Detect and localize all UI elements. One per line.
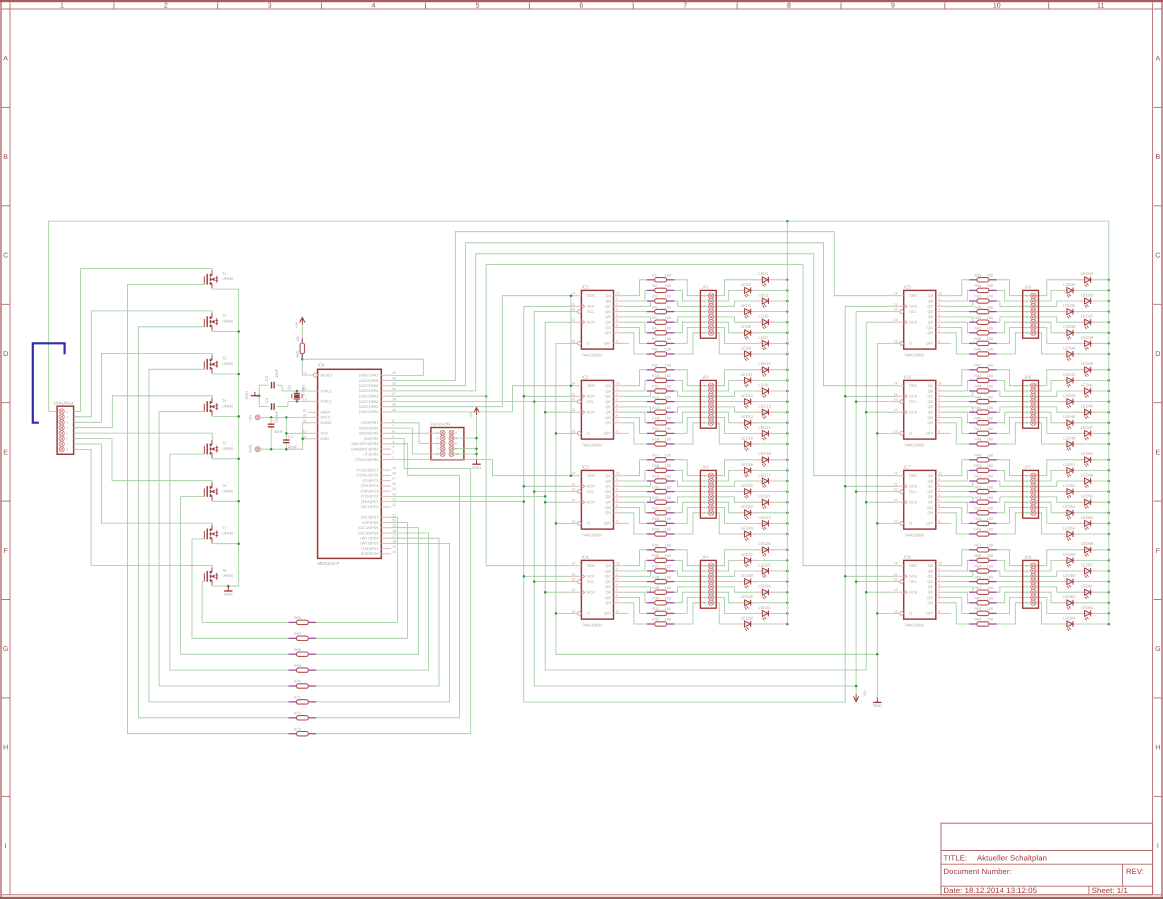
svg-text:5: 5 — [703, 585, 705, 589]
wire PB7 to ISP pin5 — [391, 423, 443, 444]
svg-text:6: 6 — [703, 591, 705, 595]
svg-text:QA: QA — [605, 564, 611, 568]
svg-text:(RXD)PD0: (RXD)PD0 — [361, 552, 379, 556]
svg-text:T1: T1 — [222, 272, 226, 276]
svg-text:100: 100 — [987, 544, 993, 548]
wire Q to R — [623, 301, 650, 306]
svg-text:R26: R26 — [652, 554, 659, 558]
wire R to JP — [674, 423, 711, 444]
wire Q to R — [946, 412, 969, 423]
svg-text:LED37: LED37 — [1081, 314, 1094, 319]
svg-text:31: 31 — [303, 419, 307, 423]
wire JP to LED — [1033, 592, 1109, 603]
wire PA3 to IC4 SER — [486, 396, 571, 566]
svg-text:2: 2 — [616, 482, 618, 486]
svg-text:(ADC5)PA5: (ADC5)PA5 — [359, 384, 379, 388]
svg-text:3: 3 — [436, 436, 438, 440]
wire RESET net to PA7 — [302, 359, 423, 375]
svg-text:(T1)PB1: (T1)PB1 — [364, 453, 378, 457]
svg-text:22: 22 — [392, 503, 396, 507]
wire R to JP — [997, 560, 1034, 571]
svg-text:T7: T7 — [222, 526, 226, 530]
wire JP to LED — [1033, 481, 1109, 486]
junction LED bus — [1108, 512, 1111, 515]
wire SV1 pin7 to T7 drain — [74, 444, 213, 525]
wire +5V top rail — [49, 221, 1109, 411]
svg-text:(ADC0)PA0: (ADC0)PA0 — [359, 410, 379, 414]
wire Q to R — [623, 401, 646, 403]
wire Q to R — [623, 322, 646, 333]
svg-text:LED3: LED3 — [759, 292, 770, 297]
svg-text:QH*: QH* — [926, 342, 934, 346]
junction LED bus — [1108, 289, 1111, 292]
wire SCK branch — [524, 575, 572, 577]
junction ISP gnd 1 — [475, 437, 478, 440]
svg-text:RCK: RCK — [909, 501, 917, 505]
wire JP to LED — [711, 301, 787, 306]
transistor T4 — [203, 404, 205, 412]
svg-text:100: 100 — [987, 284, 993, 288]
svg-text:R47: R47 — [974, 427, 981, 431]
svg-text:2: 2 — [1026, 299, 1028, 303]
junction LED bus — [1108, 501, 1111, 504]
svg-text:R1: R1 — [652, 274, 657, 278]
svg-text:74HC595N: 74HC595N — [904, 532, 924, 537]
svg-text:B: B — [1155, 154, 1160, 161]
svg-text:QC: QC — [605, 485, 611, 489]
svg-text:100: 100 — [987, 316, 993, 320]
svg-text:QH: QH — [927, 421, 933, 425]
svg-text:(ADC6)PA6: (ADC6)PA6 — [359, 379, 379, 383]
svg-text:LED34: LED34 — [1081, 271, 1094, 276]
svg-text:QD: QD — [927, 400, 933, 404]
wire SCL branch right — [856, 491, 894, 493]
wire T6 gate net — [181, 497, 289, 655]
resistor R61 — [969, 591, 977, 593]
svg-text:SCK: SCK — [909, 395, 917, 399]
svg-text:F: F — [3, 548, 7, 555]
svg-text:5: 5 — [703, 315, 705, 319]
svg-text:LED12: LED12 — [741, 393, 754, 398]
svg-text:39: 39 — [392, 403, 396, 407]
svg-text:14: 14 — [894, 562, 898, 566]
junction crystal XTAL2 — [296, 390, 299, 393]
resistor R55 — [969, 522, 977, 524]
svg-text:R51: R51 — [974, 475, 981, 479]
svg-text:SER: SER — [587, 474, 595, 478]
svg-text:29: 29 — [392, 466, 396, 470]
svg-text:IC6: IC6 — [904, 375, 911, 380]
svg-text:13: 13 — [894, 339, 898, 343]
wire JP to LED — [1033, 460, 1109, 476]
wire PC1 to SCK bus — [391, 501, 524, 503]
wire JP to LED — [711, 460, 787, 476]
svg-text:33: 33 — [392, 371, 396, 375]
wire Q to R — [946, 603, 969, 624]
svg-text:14: 14 — [572, 562, 576, 566]
diode LED29 — [756, 591, 762, 593]
wire JP to LED — [711, 481, 787, 486]
junction LED bus — [786, 459, 789, 462]
junction SCL right — [855, 580, 858, 583]
svg-text:R70: R70 — [294, 680, 301, 684]
wire R to JP — [997, 407, 1034, 412]
svg-text:T8: T8 — [222, 569, 226, 573]
svg-text:8: 8 — [1026, 421, 1028, 425]
wire RCK branch — [545, 501, 571, 503]
svg-text:QB: QB — [605, 389, 611, 393]
svg-text:10: 10 — [572, 488, 576, 492]
svg-text:8: 8 — [703, 421, 705, 425]
wire R to JP — [674, 328, 711, 344]
svg-text:(TOSC2)PC7: (TOSC2)PC7 — [356, 468, 379, 472]
svg-text:100: 100 — [665, 327, 671, 331]
transistor T6 — [203, 489, 205, 497]
wire +5V stub bottom — [855, 686, 857, 694]
svg-text:R9: R9 — [652, 364, 657, 368]
svg-text:7: 7 — [703, 326, 705, 330]
svg-text:11: 11 — [894, 572, 898, 576]
svg-text:36: 36 — [392, 387, 396, 391]
svg-text:QE: QE — [928, 315, 934, 319]
svg-text:G: G — [909, 612, 912, 616]
wire R to JP — [674, 412, 711, 423]
wire Q to R — [623, 598, 646, 614]
junction ISP gnd 3 — [475, 453, 478, 456]
diode LED27 — [738, 559, 744, 561]
svg-text:(SDA)PC1: (SDA)PC1 — [361, 500, 379, 504]
wire Q to R — [946, 311, 969, 313]
svg-text:100: 100 — [665, 337, 671, 341]
wire R to JP — [674, 311, 711, 313]
junction SCK — [523, 575, 526, 578]
svg-text:LED49: LED49 — [1081, 472, 1094, 477]
wire Q to R — [623, 571, 650, 576]
svg-text:R43: R43 — [974, 385, 981, 389]
svg-text:100: 100 — [665, 305, 671, 309]
svg-text:R66: R66 — [294, 616, 301, 620]
junction GND pin — [301, 438, 304, 441]
svg-text:R67: R67 — [294, 632, 301, 636]
wire SV1 pin1 to T1 drain — [74, 269, 213, 412]
svg-text:R62: R62 — [974, 597, 981, 601]
svg-text:LED45: LED45 — [1081, 404, 1094, 409]
svg-text:100: 100 — [665, 475, 671, 479]
resistor R9 — [647, 369, 655, 371]
wire R to JP — [997, 581, 1034, 583]
supply +5V symbol at AVCC — [255, 415, 260, 420]
svg-text:R49: R49 — [974, 454, 981, 458]
junction SCK — [523, 485, 526, 488]
junction LED bus — [1108, 390, 1111, 393]
resistor R14 — [647, 422, 655, 424]
svg-text:9: 9 — [938, 339, 940, 343]
svg-text:2: 2 — [164, 3, 168, 10]
power +5V at ISP — [474, 408, 479, 413]
svg-text:LED43: LED43 — [1063, 372, 1076, 377]
svg-text:11: 11 — [894, 482, 898, 486]
svg-text:H: H — [1155, 745, 1160, 752]
resistor R45 — [969, 411, 977, 413]
svg-text:QC: QC — [605, 575, 611, 579]
svg-text:QF: QF — [928, 501, 934, 505]
wire R to JP — [997, 290, 1034, 301]
svg-text:6: 6 — [1026, 321, 1028, 325]
wire R to JP — [997, 497, 1034, 502]
wire R to JP — [997, 380, 1034, 391]
wire SV1 pin3 to T3 drain — [74, 353, 213, 422]
wire JP to LED — [1033, 401, 1109, 403]
wire R to JP — [997, 550, 1034, 566]
svg-text:2: 2 — [703, 569, 705, 573]
junction LED bus — [1108, 623, 1111, 626]
svg-text:100: 100 — [987, 385, 993, 389]
svg-text:9: 9 — [616, 609, 618, 613]
wire R to JP — [997, 311, 1034, 313]
svg-text:3: 3 — [938, 308, 940, 312]
wire Q to R — [623, 391, 650, 396]
svg-text:R50: R50 — [974, 464, 981, 468]
svg-text:QH*: QH* — [926, 432, 934, 436]
svg-text:2: 2 — [616, 302, 618, 306]
svg-text:14: 14 — [894, 472, 898, 476]
svg-text:F: F — [1156, 548, 1160, 555]
svg-text:15: 15 — [616, 292, 620, 296]
svg-text:QE: QE — [928, 405, 934, 409]
power +5V above R65 — [300, 318, 305, 323]
svg-text:R15: R15 — [652, 427, 659, 431]
wire SCK branch right — [845, 395, 894, 397]
svg-text:QF: QF — [606, 411, 612, 415]
wire R to JP — [674, 380, 711, 391]
svg-text:R58: R58 — [974, 554, 981, 558]
svg-text:3: 3 — [1026, 305, 1028, 309]
svg-text:(SCL)PC0: (SCL)PC0 — [361, 505, 378, 509]
junction SCL right — [855, 490, 858, 493]
svg-text:100: 100 — [665, 406, 671, 410]
wire R to JP — [997, 598, 1034, 614]
wire Q to R — [623, 370, 646, 386]
svg-text:4: 4 — [616, 583, 618, 587]
wire Q to R — [946, 581, 969, 583]
wire PA2 to SCL bus — [391, 400, 534, 402]
svg-text:MEGA32-P: MEGA32-P — [318, 561, 340, 566]
svg-text:LED20: LED20 — [741, 483, 754, 488]
wire R to JP — [997, 592, 1034, 603]
resistor R44 — [969, 401, 977, 403]
svg-text:37: 37 — [392, 392, 396, 396]
diode LED37 — [1078, 321, 1084, 323]
svg-text:G: G — [909, 522, 912, 526]
resistor R26 — [647, 559, 655, 561]
wire JP to LED — [711, 407, 787, 412]
wire RCK branch — [545, 591, 571, 593]
junction LED bus — [786, 342, 789, 345]
svg-text:SER: SER — [909, 564, 917, 568]
resistor R53 — [969, 501, 977, 503]
svg-text:QG: QG — [605, 416, 611, 420]
shift register IC3 74HC595N — [581, 470, 613, 529]
svg-text:LED7: LED7 — [759, 335, 770, 340]
svg-text:5: 5 — [938, 498, 940, 502]
svg-text:12: 12 — [572, 498, 576, 502]
diode LED63 — [1078, 612, 1084, 614]
svg-text:QA: QA — [605, 474, 611, 478]
svg-text:GND: GND — [472, 465, 481, 470]
junction SCL right — [855, 400, 858, 403]
svg-text:100: 100 — [987, 464, 993, 468]
junction SCK right — [844, 575, 847, 578]
wire R to JP — [997, 587, 1034, 592]
svg-text:QE: QE — [928, 585, 934, 589]
svg-text:9: 9 — [616, 339, 618, 343]
svg-text:GND: GND — [224, 592, 233, 597]
diode LED26 — [756, 549, 762, 551]
capacitor C4 — [258, 385, 260, 406]
svg-text:100: 100 — [987, 517, 993, 521]
svg-text:(ADC7)PA7: (ADC7)PA7 — [359, 374, 379, 378]
wire Q to R — [623, 481, 650, 486]
svg-text:(INT1)PD3: (INT1)PD3 — [360, 537, 378, 541]
wire Q to R — [946, 460, 969, 476]
svg-text:4: 4 — [703, 580, 705, 584]
wire JP to LED — [711, 380, 787, 391]
transistor T8 — [203, 573, 205, 581]
resistor R32 — [647, 623, 655, 625]
svg-text:R41: R41 — [974, 364, 981, 368]
wire R to JP — [674, 370, 711, 386]
svg-text:25: 25 — [392, 487, 396, 491]
wire PB6 to ISP pin9 — [391, 428, 443, 454]
wire G bus to ground — [876, 654, 878, 697]
svg-text:3: 3 — [392, 445, 394, 449]
resistor R58 — [969, 559, 977, 561]
svg-text:3: 3 — [616, 308, 618, 312]
svg-text:7: 7 — [616, 329, 618, 333]
svg-text:LED48: LED48 — [1063, 435, 1076, 440]
wire JP to LED — [1033, 311, 1109, 313]
junction SER chain — [570, 294, 573, 297]
svg-text:15: 15 — [616, 562, 620, 566]
wire R to JP — [997, 491, 1034, 493]
svg-text:100: 100 — [665, 284, 671, 288]
svg-text:74HC595N: 74HC595N — [582, 352, 602, 357]
svg-text:13: 13 — [894, 429, 898, 433]
junction LED bus — [786, 501, 789, 504]
svg-text:4: 4 — [938, 403, 940, 407]
svg-text:R42: R42 — [974, 374, 981, 378]
svg-text:LED41: LED41 — [1081, 382, 1094, 387]
svg-text:QB: QB — [928, 299, 934, 303]
svg-text:JP1: JP1 — [702, 285, 710, 290]
resistor R28 — [647, 581, 655, 583]
diode LED30 — [738, 602, 744, 604]
svg-text:4: 4 — [1026, 490, 1028, 494]
svg-text:13: 13 — [894, 609, 898, 613]
junction LED bus — [786, 353, 789, 356]
wire JP to LED — [711, 560, 787, 571]
svg-text:(MISO)PB6: (MISO)PB6 — [359, 426, 378, 430]
wire JP to LED — [1033, 550, 1109, 566]
svg-text:3: 3 — [938, 488, 940, 492]
svg-text:5: 5 — [703, 405, 705, 409]
junction LED bus — [1108, 533, 1111, 536]
svg-text:LED38: LED38 — [1063, 324, 1076, 329]
junction LED bus — [1108, 300, 1111, 303]
ground GND below T8 — [227, 586, 229, 591]
wire JP to LED — [1033, 603, 1109, 624]
svg-text:R48: R48 — [974, 438, 981, 442]
wire Q to R — [623, 280, 646, 296]
svg-text:G: G — [909, 432, 912, 436]
svg-text:17: 17 — [392, 534, 396, 538]
svg-text:RCK: RCK — [587, 501, 595, 505]
svg-text:100: 100 — [665, 295, 671, 299]
junction SER chain — [570, 474, 573, 477]
resistor R10 — [647, 379, 655, 381]
junction SCK right — [844, 395, 847, 398]
svg-text:LED32: LED32 — [741, 615, 754, 620]
svg-text:LED52: LED52 — [1063, 483, 1076, 488]
wire Q to R — [946, 508, 969, 524]
svg-text:6: 6 — [1026, 591, 1028, 595]
wire R to JP — [997, 301, 1034, 306]
wire Q to R — [623, 603, 646, 624]
svg-text:R29: R29 — [652, 586, 659, 590]
wire JP to LED — [711, 550, 787, 566]
wire R to JP — [997, 470, 1034, 481]
junction LED bus — [786, 300, 789, 303]
svg-text:RCK: RCK — [909, 411, 917, 415]
crystal Q1 8MHz — [296, 391, 298, 393]
resistor R52 — [969, 491, 977, 493]
svg-text:R39: R39 — [974, 337, 981, 341]
svg-text:4: 4 — [1026, 310, 1028, 314]
resistor R20 — [647, 491, 655, 493]
resistor R70 — [289, 685, 297, 687]
svg-text:100: 100 — [987, 348, 993, 352]
wire JP to LED — [1033, 322, 1109, 333]
wire JP to LED — [1033, 560, 1109, 571]
svg-text:LED53: LED53 — [1081, 494, 1094, 499]
svg-text:QG: QG — [927, 506, 933, 510]
svg-text:VCC: VCC — [320, 432, 328, 436]
svg-text:(OC2)PD7: (OC2)PD7 — [361, 516, 379, 520]
resistor R22 — [647, 512, 655, 514]
svg-text:QH: QH — [605, 511, 611, 515]
wire JP to LED — [711, 328, 787, 344]
svg-text:10: 10 — [993, 3, 1001, 10]
svg-text:(ADC1)PA1: (ADC1)PA1 — [359, 405, 379, 409]
diode LED19 — [738, 469, 744, 471]
svg-text:LED30: LED30 — [741, 594, 754, 599]
svg-text:3: 3 — [703, 485, 705, 489]
svg-text:SER: SER — [909, 294, 917, 298]
svg-text:7: 7 — [1026, 416, 1028, 420]
svg-text:14: 14 — [572, 382, 576, 386]
wire T3 source — [212, 372, 239, 375]
wire SCL bus left bank — [534, 312, 894, 686]
wire JP to LED — [711, 508, 787, 524]
svg-text:AREF: AREF — [320, 411, 331, 415]
wire Q to R — [946, 598, 969, 614]
svg-text:UF630: UF630 — [222, 489, 233, 493]
diode LED59 — [1061, 559, 1067, 561]
resistor R37 — [969, 321, 977, 323]
svg-text:R28: R28 — [652, 575, 659, 579]
svg-text:5: 5 — [1026, 585, 1028, 589]
wire JP to LED — [711, 592, 787, 603]
